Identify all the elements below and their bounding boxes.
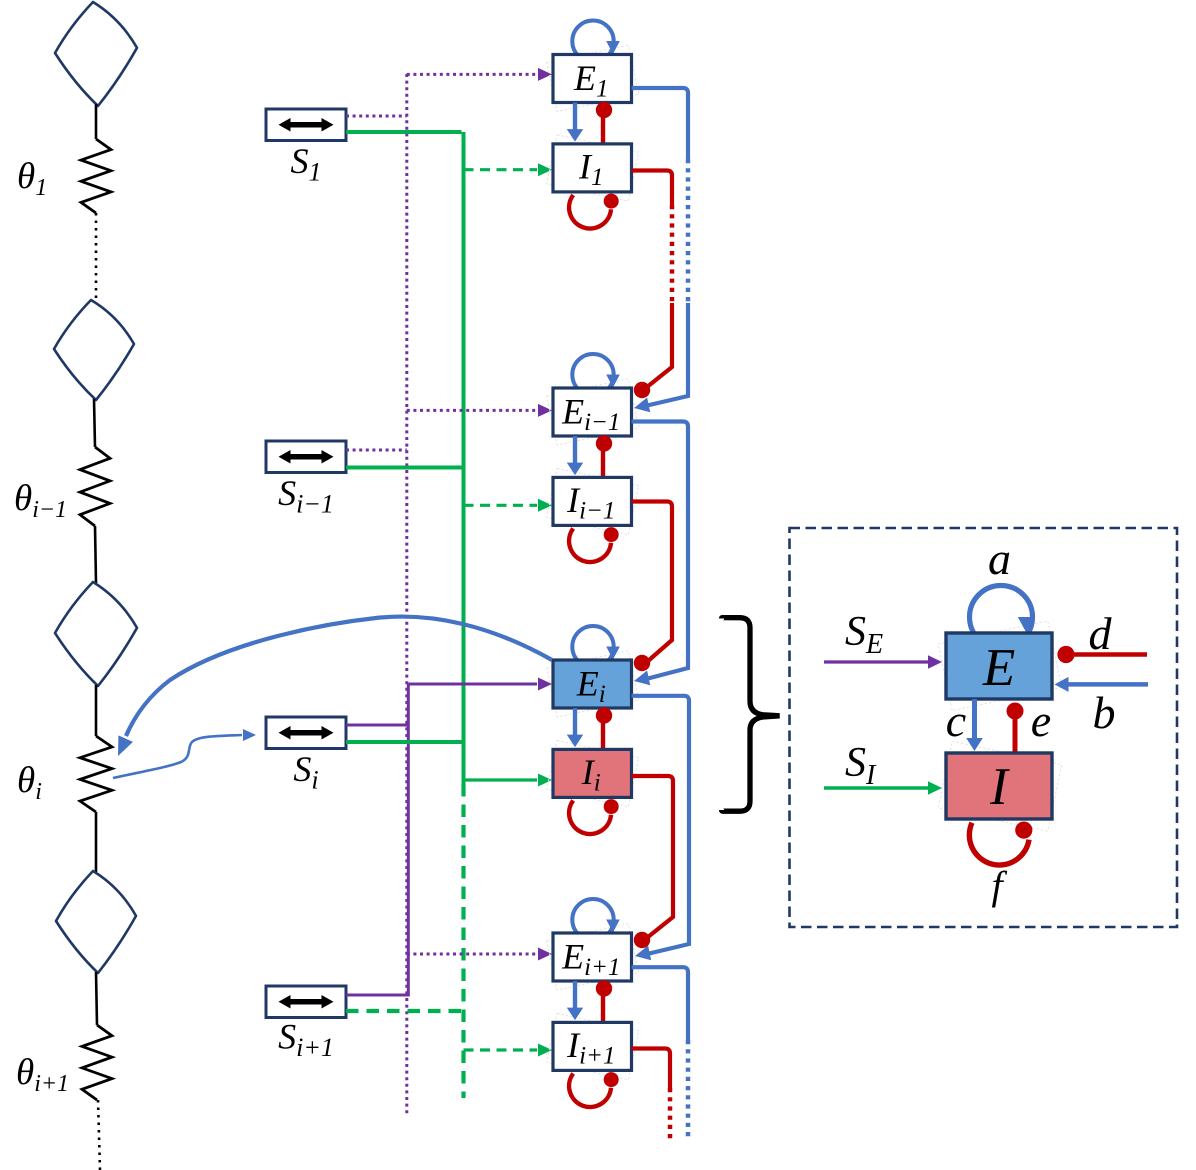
diamond node 3 bbox=[55, 582, 137, 686]
svg-text:d: d bbox=[1089, 608, 1113, 659]
red link d with dot bbox=[1072, 652, 1147, 657]
wire Si purple solid stub bbox=[346, 724, 408, 727]
E box Ei+1 bbox=[553, 933, 632, 981]
double arrow icon in Si-1 bbox=[288, 454, 324, 460]
wire purple dotted into Ei-1 bbox=[407, 409, 537, 412]
I box Ii+1 bbox=[553, 1022, 632, 1070]
svg-text:e: e bbox=[1031, 695, 1051, 746]
ghost rect behind detail E bbox=[938, 621, 1062, 711]
wire resistor θi-1 to diamond3 bbox=[95, 526, 96, 583]
wire purple solid into Ei bbox=[408, 683, 537, 686]
svg-text:c: c bbox=[946, 695, 966, 746]
detail E box bbox=[946, 633, 1052, 699]
wire Si+1 green dashed stub bbox=[346, 1009, 464, 1013]
wire green solid into Ii bbox=[464, 778, 538, 781]
red link e I to E with dot bbox=[1013, 717, 1018, 753]
red inhibitory link Ii+1 to Ei+1 bbox=[601, 989, 605, 1022]
svg-text:b: b bbox=[1093, 687, 1116, 738]
blue arrow Ei to Ii bbox=[573, 708, 577, 735]
wire green dashed into Ii+1 bbox=[464, 1048, 538, 1051]
wire Si+1 purple solid stub bbox=[346, 994, 410, 997]
wire purple dotted into Ei+1 bbox=[407, 953, 537, 956]
wire purple dotted into E1 bbox=[407, 73, 537, 76]
wire resistor θi to diamond4 bbox=[95, 812, 98, 872]
wire red Ii output down bbox=[632, 776, 674, 937]
double arrow icon in Si bbox=[288, 730, 324, 736]
blue arrow b into E right bbox=[1068, 682, 1148, 687]
detail I box bbox=[946, 753, 1052, 819]
dotted wire below resistor θi+1 bbox=[98, 1100, 100, 1170]
wire diamond2 to resistor θi-1 bbox=[94, 399, 95, 447]
red self-loop (inhibitory) on I1 bbox=[569, 195, 611, 228]
I box I1 bbox=[553, 144, 632, 192]
purple solid trunk vertical (Si,Si+1 to Ei) bbox=[407, 684, 410, 995]
wire red Ii-1 output down bbox=[632, 502, 673, 662]
curly brace grouping Ei/Ii bbox=[722, 618, 780, 812]
red self-loop (inhibitory) on Ii+1 bbox=[569, 1074, 611, 1107]
green arrow SI into I bbox=[824, 786, 932, 789]
wire blue Ei+1 output down bbox=[632, 967, 689, 1040]
resistor θi (potentiometer) bbox=[80, 736, 112, 812]
wire green dashed into Ii-1 bbox=[464, 504, 538, 507]
E box Ei bbox=[553, 660, 632, 708]
double arrow icon in Si+1 bbox=[288, 999, 324, 1005]
ghost rect behind Ei+1 bbox=[547, 924, 639, 990]
dotted wire resistor θ1 to diamond2 bbox=[95, 213, 98, 300]
wire red Ii+1 output down bbox=[632, 1049, 671, 1089]
resistor θ1 bbox=[81, 139, 111, 213]
ghost rect behind Ei-1 bbox=[547, 379, 639, 445]
red inhibitory link Ii-1 to Ei-1 bbox=[601, 444, 605, 477]
red self-loop (inhibitory) on Ii bbox=[569, 801, 611, 834]
self-loop (excitatory) on Ei bbox=[572, 626, 613, 667]
stimulus box Si-1 bbox=[266, 441, 346, 473]
diamond node top-1 bbox=[55, 2, 137, 106]
svg-text:E: E bbox=[982, 639, 1015, 697]
blue arrow Ei+1 to Ii+1 bbox=[573, 981, 577, 1008]
stimulus box Si bbox=[266, 717, 346, 749]
blue arrow c E to I bbox=[972, 699, 977, 740]
E box E1 bbox=[553, 55, 632, 103]
double arrow icon in S1 bbox=[288, 122, 324, 128]
wire green dashed into I1 bbox=[464, 168, 538, 171]
blue squiggle theta_i to Si bbox=[113, 735, 242, 778]
wire diamond4 to resistor θi+1 bbox=[96, 972, 97, 1025]
wire blue E1 output down bbox=[632, 88, 689, 159]
resistor θi-1 bbox=[80, 447, 110, 526]
wire Si-1 purple dotted stub bbox=[346, 449, 407, 452]
red self-loop (inhibitory) on Ii-1 bbox=[569, 529, 611, 562]
diamond node 2 bbox=[54, 300, 134, 400]
purple dotted trunk vertical bbox=[405, 74, 408, 1116]
I box Ii-1 bbox=[553, 477, 632, 525]
wire diamond1 to resistor theta1 bbox=[95, 104, 98, 139]
wire diamond3 to resistor θi bbox=[95, 685, 98, 736]
wire Si-1 green solid bbox=[346, 466, 464, 470]
blue arrow E1 to I1 bbox=[573, 103, 577, 130]
self-loop (excitatory) on Ei+1 bbox=[572, 899, 613, 940]
blue arrow Ei-1 to Ii-1 bbox=[573, 436, 577, 463]
ghost rect behind Ii bbox=[547, 740, 639, 806]
svg-text:I: I bbox=[989, 758, 1010, 816]
ghost rect behind I1 bbox=[547, 135, 639, 201]
wire blue Ei-1 output down bbox=[632, 422, 689, 680]
ghost rect behind detail I bbox=[938, 741, 1062, 831]
diamond node 4 bbox=[56, 871, 136, 973]
wire blue Ei output down bbox=[632, 696, 690, 954]
self-loop (excitatory) on Ei-1 bbox=[572, 354, 613, 395]
wire Si green solid bbox=[346, 740, 464, 744]
ghost rect behind Ii-1 bbox=[547, 468, 639, 534]
I box Ii bbox=[553, 749, 632, 797]
green dashed trunk vertical bbox=[461, 784, 465, 1098]
self-loop a on detail E bbox=[970, 586, 1033, 649]
ghost rect behind Ei bbox=[547, 651, 639, 717]
ghost rect behind E1 bbox=[547, 45, 639, 111]
resistor θi+1 bbox=[82, 1025, 112, 1100]
wire red I1 output down bbox=[632, 171, 673, 206]
dashed inset border bbox=[790, 528, 1178, 927]
self-loop (excitatory) on E1 bbox=[572, 21, 613, 62]
wire S1 purple dotted stub bbox=[346, 115, 407, 118]
purple arrow SE into E bbox=[824, 660, 932, 663]
red self-loop f on detail I bbox=[969, 823, 1029, 865]
red inhibitory link I1 to E1 bbox=[601, 111, 605, 144]
stimulus box Si+1 bbox=[266, 986, 346, 1018]
stimulus box S1 bbox=[266, 109, 346, 141]
wire blue into Ei-1 bbox=[645, 303, 688, 406]
ghost rect behind Ii+1 bbox=[547, 1013, 639, 1079]
wire red into Ei-1 (dot) bbox=[647, 303, 672, 387]
green solid trunk vertical bbox=[462, 132, 466, 784]
svg-text:a: a bbox=[988, 533, 1011, 584]
red inhibitory link Ii to Ei bbox=[601, 716, 605, 749]
wire S1 green solid bbox=[346, 130, 462, 134]
E box Ei-1 bbox=[553, 388, 632, 436]
blue arc Ei to theta_i resistor bbox=[126, 617, 552, 736]
